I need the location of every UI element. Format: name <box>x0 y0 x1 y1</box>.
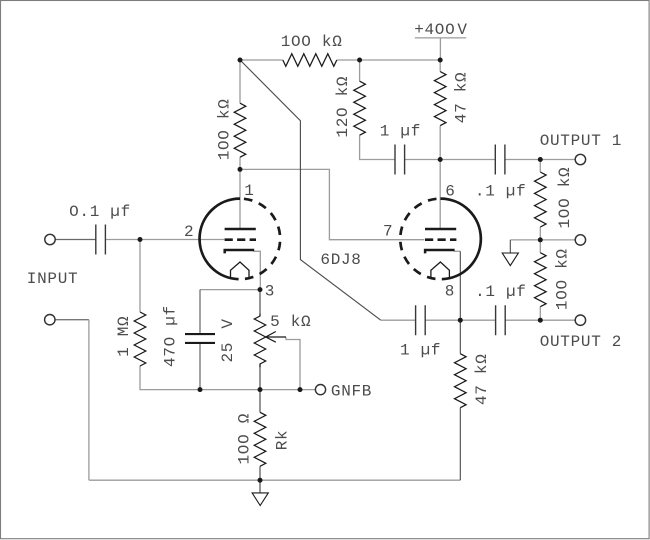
svg-text:6: 6 <box>445 183 455 201</box>
svg-text:1 µf: 1 µf <box>380 122 421 140</box>
svg-text:1OO kΩ: 1OO kΩ <box>556 167 574 229</box>
svg-text:1 MΩ: 1 MΩ <box>115 316 133 357</box>
svg-text:1OO kΩ: 1OO kΩ <box>216 98 234 160</box>
svg-text:INPUT: INPUT <box>27 270 79 288</box>
svg-text:1OO Ω: 1OO Ω <box>235 413 253 465</box>
svg-text:OUTPUT 2: OUTPUT 2 <box>540 333 622 351</box>
svg-text:5 kΩ: 5 kΩ <box>270 313 311 331</box>
svg-text:6DJ8: 6DJ8 <box>320 251 361 269</box>
svg-text:.1 µf: .1 µf <box>475 183 527 201</box>
svg-text:3: 3 <box>265 282 275 300</box>
svg-text:+4OO: +4OO <box>414 21 455 39</box>
svg-text:1OO kΩ: 1OO kΩ <box>554 248 572 310</box>
svg-text:.1 µf: .1 µf <box>475 283 527 301</box>
svg-text:47 kΩ: 47 kΩ <box>453 72 471 124</box>
svg-text:2: 2 <box>184 223 194 241</box>
svg-text:GNFB: GNFB <box>331 383 372 401</box>
svg-text:47 kΩ: 47 kΩ <box>473 353 491 405</box>
svg-text:25: 25 <box>219 342 237 363</box>
svg-text:O.1 µf: O.1 µf <box>69 203 131 221</box>
svg-text:1: 1 <box>244 182 254 200</box>
svg-text:V: V <box>457 21 467 39</box>
svg-text:7: 7 <box>383 222 393 240</box>
svg-text:OUTPUT 1: OUTPUT 1 <box>540 132 622 150</box>
svg-text:V: V <box>219 318 237 328</box>
svg-text:47O µf: 47O µf <box>161 305 179 367</box>
svg-text:Rk: Rk <box>274 430 292 451</box>
svg-text:12O kΩ: 12O kΩ <box>334 76 352 138</box>
svg-text:1 µf: 1 µf <box>400 342 441 360</box>
svg-text:1OO kΩ: 1OO kΩ <box>281 33 343 51</box>
svg-text:8: 8 <box>445 282 455 300</box>
